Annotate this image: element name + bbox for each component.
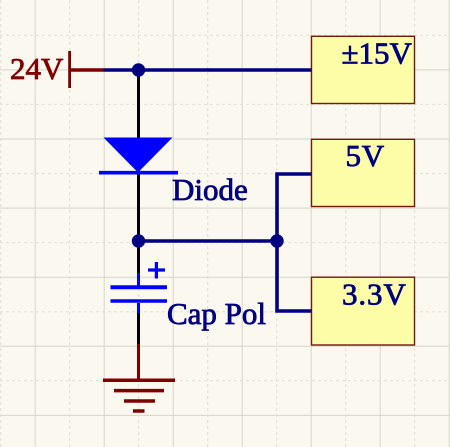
svg-text:±15V: ±15V — [342, 36, 413, 71]
svg-text:Cap Pol: Cap Pol — [167, 296, 266, 331]
svg-text:24V: 24V — [10, 51, 64, 86]
svg-text:Diode: Diode — [172, 172, 248, 207]
svg-text:5V: 5V — [346, 138, 386, 173]
svg-text:3.3V: 3.3V — [342, 277, 407, 312]
